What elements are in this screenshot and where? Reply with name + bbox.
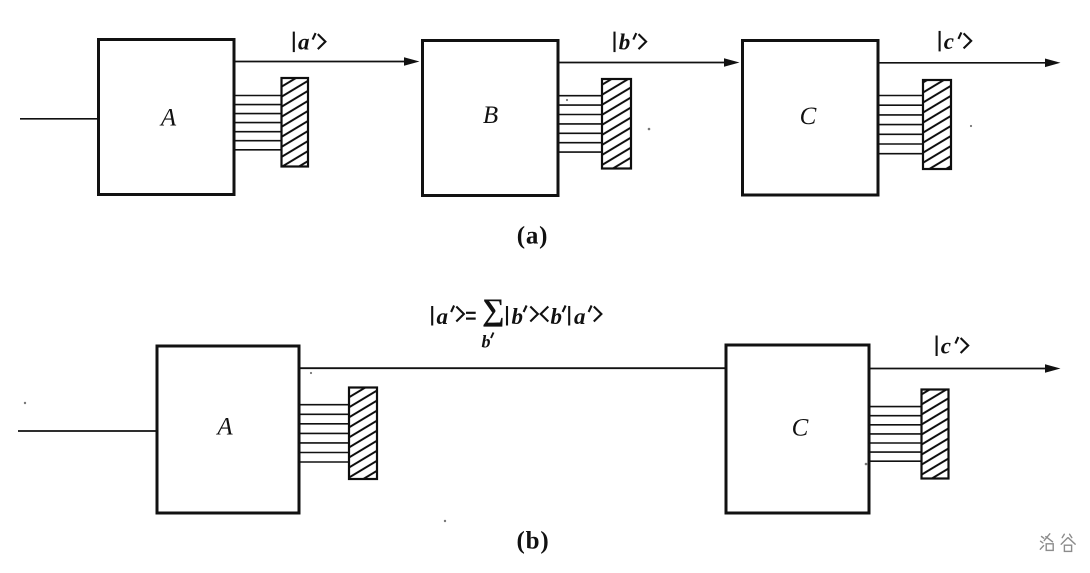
svg-text:a: a (437, 304, 449, 329)
svg-text:a: a (298, 30, 310, 55)
speck marks (scan artifacts) (24, 99, 972, 522)
formula label |a'> = sum over b' of |b'><b'|a'> (432, 292, 601, 351)
hatched block: beam stop C (part b) (922, 390, 949, 479)
comb: blocked beams out of C (877, 96, 924, 154)
box C (selective measurement C) (743, 41, 879, 196)
svg-text:b: b (619, 30, 631, 55)
box B (selective measurement B) (423, 41, 559, 196)
ket |b'> (506, 306, 508, 326)
svg-text:b: b (551, 304, 563, 329)
svg-text:a: a (574, 304, 586, 329)
label |b'> (615, 30, 647, 55)
comb: blocked beams out of C (part b) (868, 407, 922, 462)
hatched block: beam stop B (602, 79, 631, 169)
hatched block: beam stop A (282, 78, 309, 167)
arrow: |b'> beam from B to C (558, 58, 740, 67)
arrow: |c'> output beam of part (a) (878, 59, 1061, 68)
svg-text:c: c (944, 29, 954, 54)
hatched block: beam stop A (part b) (349, 388, 377, 480)
ket bar (431, 306, 433, 326)
wire: input beam into box A (part b) (18, 430, 158, 432)
comb: blocked beams out of A (part b) (298, 405, 350, 462)
watermark: luo character (1040, 534, 1053, 551)
comb: blocked beams out of B (557, 96, 603, 152)
equals sign (466, 312, 476, 314)
svg-text:b: b (512, 304, 524, 329)
bar |a'> (568, 306, 570, 326)
svg-text:b: b (482, 332, 491, 352)
box A (selective measurement A) (99, 40, 235, 195)
svg-text:C: C (792, 415, 809, 442)
wire: input beam into box A (20, 118, 99, 120)
svg-text:A: A (159, 104, 177, 131)
arrow: |c'> output beam of part (b) (869, 364, 1061, 373)
label |c'> (part a) (940, 29, 972, 54)
svg-text:∑: ∑ (482, 292, 504, 327)
label |a'> (294, 30, 326, 55)
box C (part b) (726, 345, 869, 513)
comb: blocked beams out of A (233, 96, 282, 150)
svg-text:c: c (941, 334, 951, 359)
label |c'> (part b) (937, 334, 969, 359)
svg-text:(a): (a) (517, 223, 549, 250)
box A (part b) (157, 346, 299, 513)
hatched block: beam stop C (923, 80, 951, 169)
bra <b' (541, 307, 549, 322)
svg-text:(b): (b) (517, 528, 550, 555)
watermark: gu character (1061, 534, 1075, 551)
svg-text:A: A (215, 414, 233, 441)
svg-text:C: C (800, 103, 817, 130)
wire: |a'> beam from A to C (part b) (299, 367, 727, 369)
svg-text:B: B (483, 102, 498, 129)
arrow: |a'> beam from A to B (235, 57, 420, 66)
